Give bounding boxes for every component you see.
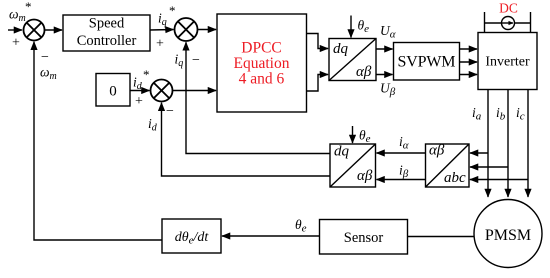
label minus sign at S1	[41, 50, 49, 65]
block abc to alpha-beta transform T3	[426, 144, 470, 187]
wire PMSM to Sensor	[408, 236, 475, 238]
svg-text:+: +	[156, 37, 164, 52]
block SVPWM	[394, 43, 460, 81]
svg-text:iq: iq	[158, 11, 167, 29]
text PMSM	[485, 227, 531, 244]
svg-text:Uα: Uα	[380, 23, 396, 41]
wire S1 to Speed Controller	[45, 29, 63, 31]
svg-text:−: −	[166, 104, 174, 119]
block Inverter	[478, 33, 537, 90]
block Speed Controller	[63, 15, 150, 51]
svg-text:ib: ib	[496, 105, 506, 123]
svg-text:θe: θe	[359, 128, 371, 146]
block DPCC Equation 4 and 6	[217, 14, 307, 112]
text alpha-beta of T1	[356, 64, 372, 80]
label iq feedback	[175, 52, 184, 70]
block zero reference	[96, 74, 130, 107]
text SVPWM	[398, 54, 456, 71]
wire inverter phase a down to PMSM	[487, 90, 489, 198]
svg-text:Speed: Speed	[89, 16, 125, 32]
svg-text:+: +	[135, 94, 143, 109]
label i_c	[516, 105, 525, 123]
label i_b	[496, 105, 506, 123]
svg-text:4 and 6: 4 and 6	[239, 71, 285, 88]
wire T1 output U_beta to SVPWM	[376, 74, 393, 76]
svg-text:Controller: Controller	[77, 33, 137, 49]
svg-text:dq: dq	[333, 41, 349, 57]
wire Sensor to d(theta)/dt block	[222, 235, 320, 237]
svg-text:αβ: αβ	[429, 143, 445, 159]
label theta_e bottom	[295, 217, 307, 235]
wire S2 to DPCC block	[198, 29, 217, 31]
svg-text:iα: iα	[399, 134, 409, 152]
text Speed Controller	[77, 16, 137, 50]
label plus sign at S1	[12, 36, 20, 51]
svg-text:αβ: αβ	[356, 64, 372, 80]
label omega_m feedback	[40, 65, 57, 83]
label plus sign at S2	[156, 37, 164, 52]
label minus sign at S3	[166, 104, 174, 119]
label U_beta	[380, 81, 396, 99]
wire i_beta from T3 to T2	[377, 179, 426, 181]
label theta_e middle	[359, 128, 371, 146]
text Inverter	[485, 55, 530, 70]
wire SVPWM to Inverter line 2	[460, 61, 478, 63]
text zero	[109, 84, 117, 100]
wire theta_e into T1	[350, 16, 352, 38]
svg-text:θe: θe	[358, 18, 370, 36]
svg-text:*: *	[169, 3, 176, 18]
svg-text:*: *	[25, 0, 32, 14]
svg-text:*: *	[143, 67, 150, 82]
block dq to alpha-beta transform T1	[329, 39, 376, 81]
svg-text:ωm: ωm	[40, 65, 57, 83]
wire SVPWM to Inverter line 3	[460, 74, 478, 76]
svg-text:+: +	[12, 36, 20, 51]
svg-text:id: id	[133, 75, 143, 93]
svg-text:iβ: iβ	[399, 163, 409, 181]
label theta_e top	[358, 18, 370, 36]
svg-text:αβ: αβ	[357, 168, 373, 184]
block alpha-beta to dq transform T2	[330, 144, 376, 187]
wire DPCC output ud to dq1 transform	[307, 75, 329, 92]
label i_beta	[399, 163, 409, 181]
text d theta_e / dt	[175, 230, 210, 247]
wire Speed Controller to summing junction S2 (iq*)	[150, 29, 174, 32]
motor PMSM circle	[474, 200, 542, 268]
wire iq feedback from T2 to S2	[186, 42, 330, 153]
label DC	[499, 1, 518, 16]
svg-text:DPCC: DPCC	[241, 40, 282, 57]
svg-text:Sensor: Sensor	[344, 230, 384, 246]
label plus sign at S3	[135, 94, 143, 109]
svg-text:ia: ia	[472, 105, 482, 123]
svg-text:PMSM: PMSM	[485, 227, 531, 244]
svg-text:DC: DC	[499, 1, 518, 16]
wire i_alpha from T3 to T2	[377, 152, 426, 154]
svg-text:ic: ic	[516, 105, 525, 123]
label id* reference	[133, 67, 150, 92]
label id feedback	[148, 116, 158, 134]
svg-text:iq: iq	[175, 52, 184, 70]
svg-text:abc: abc	[444, 170, 466, 186]
svg-text:dθe/dt: dθe/dt	[175, 230, 210, 247]
DC source leads	[485, 12, 531, 33]
svg-text:id: id	[148, 116, 158, 134]
summing junction S1	[24, 20, 45, 41]
text dq of T2	[334, 144, 350, 160]
wire inverter phase c down to PMSM	[527, 90, 529, 198]
wire DPCC output uq to dq1 transform	[307, 34, 329, 49]
label U_alpha	[380, 23, 396, 41]
svg-text:Inverter: Inverter	[485, 55, 530, 70]
DC source circle	[502, 17, 515, 30]
wire phase b branch to abc transform	[470, 166, 508, 168]
text alpha-beta of T3	[429, 143, 445, 159]
text abc of T3	[444, 170, 466, 186]
svg-text:0: 0	[109, 84, 117, 100]
wire inverter phase b down to PMSM	[507, 90, 509, 198]
svg-text:Equation: Equation	[234, 55, 290, 72]
wire id feedback from T2 to S3	[162, 103, 331, 176]
wire speed feedback from d(theta)/dt to S1	[34, 42, 162, 240]
svg-text:−: −	[192, 53, 200, 68]
text dq of T1	[333, 41, 349, 57]
svg-text:dq: dq	[334, 144, 350, 160]
label i_a	[472, 105, 482, 123]
wire input omega_m* into summing junction S1	[8, 29, 22, 31]
wire zero block to summing junction S3 (id*)	[130, 90, 150, 92]
svg-text:−: −	[41, 50, 49, 65]
wire S3 to DPCC block	[173, 90, 217, 92]
wire phase c branch to abc transform	[470, 179, 528, 181]
svg-text:ωm: ωm	[9, 7, 26, 25]
label minus sign at S2	[192, 53, 200, 68]
wire phase a branch to abc transform	[470, 152, 488, 154]
summing junction S3	[151, 80, 173, 102]
label i_alpha	[399, 134, 409, 152]
text alpha-beta of T2	[357, 168, 373, 184]
svg-text:SVPWM: SVPWM	[398, 54, 456, 71]
block d(theta_e)/dt	[162, 219, 221, 253]
label omega_m* reference	[9, 0, 32, 24]
block Sensor	[320, 220, 408, 255]
svg-text:θe: θe	[295, 217, 307, 235]
text Sensor	[344, 230, 384, 246]
wire T1 output U_alpha to SVPWM	[376, 48, 393, 50]
text DPCC Equation 4 and 6	[234, 40, 290, 88]
label iq* reference	[158, 3, 176, 28]
svg-text:Uβ: Uβ	[380, 81, 396, 99]
summing junction S2	[175, 18, 198, 41]
wire SVPWM to Inverter line 1	[460, 48, 478, 50]
wire theta_e into T2	[352, 126, 354, 143]
